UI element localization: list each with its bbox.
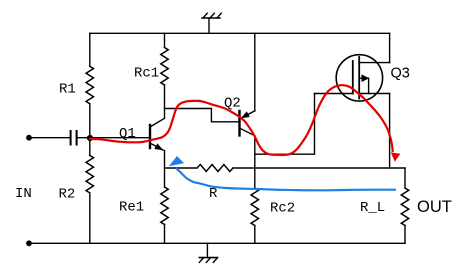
ground bottom	[206, 243, 208, 257]
wire Q3 source lead	[359, 93, 389, 95]
transistor Q3 arrowhead	[362, 74, 370, 82]
svg-text:Q2: Q2	[224, 96, 241, 112]
signal path red curve	[89, 85, 393, 155]
wire input lead	[29, 137, 71, 139]
wire Q2 collector column	[254, 136, 256, 168]
wire Q2 base run	[165, 109, 239, 122]
wire Q1 emitter column	[164, 151, 166, 188]
resistor R_L	[401, 188, 408, 226]
wire Rc1 top	[164, 33, 166, 47]
svg-text:R_L: R_L	[360, 200, 385, 216]
wire Q3 gate row	[315, 93, 353, 95]
svg-text:Rc1: Rc1	[134, 65, 159, 81]
svg-text:R: R	[209, 186, 218, 202]
wire feedback row right	[233, 167, 405, 169]
wire Rc1 bottom to node	[164, 85, 166, 118]
svg-text:R2: R2	[59, 187, 76, 203]
transistor Q1 emitter arrowhead	[154, 143, 163, 150]
resistor Rc2	[251, 188, 258, 226]
wire Q2 emitter column	[254, 33, 256, 111]
wire bottom rail	[29, 242, 405, 244]
svg-text:Q3: Q3	[391, 66, 410, 82]
resistor R1	[86, 66, 93, 104]
node input terminal	[26, 135, 32, 141]
wire R_L top corner	[404, 168, 406, 188]
wire Rc2 top stub	[254, 168, 256, 188]
wire Q2 collector tap	[255, 94, 315, 155]
wire left column lower	[89, 193, 91, 243]
transistor Q2 emitter arrowhead	[241, 111, 250, 118]
svg-text:Re1: Re1	[119, 200, 144, 216]
resistor R	[197, 165, 233, 172]
capacitor C1	[71, 131, 77, 145]
svg-text:IN: IN	[15, 186, 32, 202]
resistor Rc1	[161, 48, 168, 86]
node ground terminal	[26, 240, 32, 246]
wire Rc2 bottom	[254, 226, 256, 244]
wire R_L bottom	[404, 226, 406, 244]
svg-text:Rc2: Rc2	[270, 201, 295, 217]
node base junction dot	[87, 135, 93, 141]
feedback blue curve	[176, 168, 396, 190]
ground top	[208, 18, 210, 33]
wire top supply rail	[90, 32, 390, 34]
svg-text:R1: R1	[59, 82, 76, 98]
wire left column upper	[89, 33, 91, 66]
svg-text:Q1: Q1	[119, 126, 136, 142]
transistor Q3	[336, 55, 382, 101]
signal path red arrowhead	[391, 152, 401, 161]
wire Re1 bottom	[164, 225, 166, 244]
resistor R2	[86, 155, 93, 193]
wire Q1 base	[77, 137, 149, 139]
wire left column middle	[89, 104, 91, 156]
transistor Q2	[241, 111, 255, 119]
transistor Q1	[149, 125, 151, 148]
svg-text:OUT: OUT	[417, 198, 452, 216]
wire feedback row left	[165, 167, 198, 169]
resistor Re1	[161, 187, 168, 225]
wire Q3 source drop	[389, 94, 391, 169]
feedback blue arrowhead	[169, 156, 184, 166]
